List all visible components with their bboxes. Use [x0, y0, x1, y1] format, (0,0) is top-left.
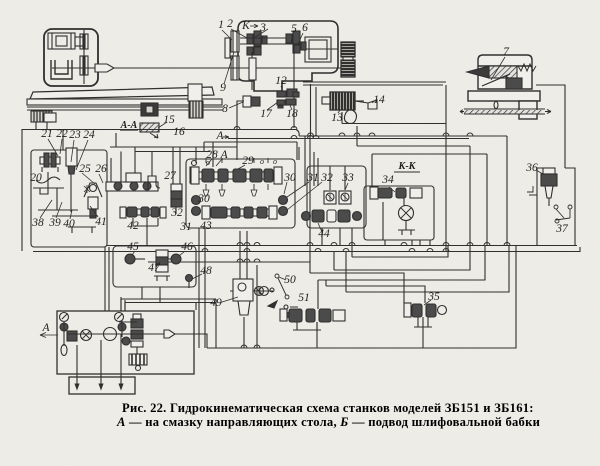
wire bus jog	[296, 130, 299, 137]
valve 27 stack	[171, 184, 182, 214]
pointer 6	[298, 33, 303, 44]
worm gear 17-18	[277, 99, 296, 108]
pointer 9	[224, 52, 234, 84]
tank arrows	[75, 334, 123, 389]
gear pair 2-3	[247, 31, 267, 55]
wire stair 3	[334, 246, 470, 271]
wheelhead lever	[482, 74, 519, 86]
wheelhead column	[519, 101, 537, 119]
motor 13	[322, 92, 364, 110]
wire main bus 1	[107, 245, 577, 247]
drain sign 36	[527, 186, 537, 195]
wire riser pair mid	[314, 152, 420, 245]
wire main return	[207, 246, 516, 349]
valve 35 spool	[404, 303, 447, 327]
arrow under block 16	[150, 133, 158, 138]
valve 44	[302, 210, 362, 222]
pilot circles 30 right	[279, 196, 288, 216]
pointer 47	[156, 262, 160, 267]
pointer 3 arrow	[254, 29, 268, 38]
drip tray 40	[38, 186, 98, 233]
accumulator 28	[190, 161, 198, 184]
shaft I	[240, 37, 300, 39]
power unit piping	[64, 321, 194, 354]
pointer 50	[279, 277, 286, 280]
screw body	[249, 58, 256, 80]
oil tank	[69, 377, 135, 394]
pump 1	[60, 323, 68, 331]
pointer 33	[345, 183, 348, 190]
pointer 23	[71, 140, 74, 162]
pointer 14	[372, 99, 377, 103]
table right column	[188, 84, 202, 101]
pointer 39	[56, 202, 62, 218]
pointer 49	[219, 297, 238, 303]
element 14	[368, 100, 377, 109]
power unit box	[57, 311, 194, 374]
pump below motor 13	[344, 110, 356, 124]
backpressure valve 36	[541, 168, 557, 206]
left panel inner box	[31, 150, 107, 247]
pilot valve 42	[120, 207, 166, 218]
float lever 20	[33, 172, 64, 194]
A net arrow	[223, 136, 229, 139]
wheelhead slide bar	[460, 102, 551, 115]
filter 2	[129, 354, 147, 371]
wire stair 6	[326, 286, 425, 303]
limit contact 50	[275, 274, 289, 299]
wire pump column	[121, 297, 125, 311]
wire stair 5	[318, 246, 485, 281]
pump 4	[118, 323, 126, 331]
wire stair 2	[352, 246, 448, 258]
wheelhead centre cone	[467, 66, 489, 78]
bracket 26	[84, 183, 102, 218]
pump 3	[104, 328, 117, 341]
link to 14	[355, 101, 368, 103]
A-A underline	[120, 129, 138, 131]
pointer 29	[238, 165, 245, 169]
lube valve 21-22	[40, 153, 60, 172]
wire return pair	[121, 287, 216, 348]
throttle row 29	[191, 158, 282, 184]
pointer 38	[40, 200, 52, 218]
filter 1	[67, 331, 77, 341]
pointer 22	[60, 139, 62, 154]
gearbox housing outline	[238, 21, 338, 91]
wheelhead spring	[518, 64, 536, 71]
workhead centre line	[52, 67, 95, 69]
pilot box	[126, 173, 141, 182]
vertical drive shaft	[293, 44, 295, 128]
gear pair 5-6	[286, 31, 306, 53]
pointer 15	[158, 122, 167, 128]
centre cone	[95, 64, 114, 72]
wire center drops	[199, 130, 430, 349]
pointer 45	[132, 251, 135, 255]
wheelhead solenoid	[506, 78, 522, 89]
pointer 12	[281, 86, 283, 92]
wire wheelhead riser	[536, 85, 565, 168]
distributor 49	[230, 279, 274, 315]
workhead spindle shaft	[80, 30, 88, 84]
wire stair 1	[148, 262, 310, 273]
reversing valve 43	[202, 206, 277, 219]
pawl 19	[293, 92, 299, 97]
A pump arrow	[40, 333, 58, 338]
pointer 13	[338, 110, 340, 113]
pointer 36	[536, 170, 543, 174]
solenoid 46	[166, 254, 181, 264]
table drive cylinder block	[141, 103, 158, 116]
workhead body outline	[44, 29, 98, 86]
wire stair 4	[310, 273, 404, 303]
pointer 32t	[287, 182, 322, 210]
pointer 30r	[284, 182, 287, 194]
pointer 8	[229, 102, 243, 108]
relief valve stack	[131, 314, 143, 347]
grinding wheel	[341, 42, 355, 77]
wheelhead quill	[489, 66, 517, 78]
valve 47	[154, 250, 170, 281]
lever 51	[268, 301, 298, 321]
valve 36 enclosure	[537, 168, 575, 245]
pointer 1	[222, 30, 232, 40]
pointer 2	[231, 29, 247, 38]
K-K section box	[364, 186, 434, 240]
gauge 2	[115, 313, 124, 322]
pointer 34	[389, 187, 395, 192]
control block box	[186, 159, 295, 228]
pilot line lower	[303, 84, 443, 136]
dither unit 8	[237, 96, 260, 130]
bevel gear 12	[277, 89, 297, 97]
wire bus extension	[299, 135, 507, 137]
pilot circles 30 left	[192, 196, 201, 216]
pointer 18	[290, 105, 292, 110]
stop valve 34	[370, 187, 422, 240]
pointer 28	[206, 159, 222, 166]
pilot line from gearbox	[303, 81, 446, 83]
pointer 48	[192, 274, 202, 279]
caption line 2	[117, 415, 587, 430]
wire stair 7	[346, 246, 509, 293]
pointer K arrow	[250, 24, 258, 28]
wheelhead base plate	[468, 91, 540, 101]
pointer 35	[424, 300, 431, 305]
wire feeder grid	[63, 130, 469, 184]
table second foot	[44, 113, 56, 122]
feed screw shaft	[251, 52, 253, 90]
wire valve42 drains	[133, 218, 158, 246]
pump 2	[81, 330, 92, 341]
pointer 7	[491, 57, 505, 80]
outlet cone	[164, 330, 175, 338]
table rail	[27, 99, 223, 110]
wire left panel drops	[105, 247, 109, 311]
pointer 24	[76, 140, 88, 170]
gauge 1	[60, 313, 69, 322]
manifold 25	[106, 182, 158, 191]
valve 48	[186, 275, 193, 289]
solenoid 45	[125, 254, 145, 264]
U bracket	[51, 60, 72, 79]
motor M1 inside workhead	[48, 33, 83, 49]
plunger 23	[66, 148, 77, 186]
motor M2 in gearbox	[298, 37, 338, 62]
wire right risers	[446, 85, 507, 252]
pointer 26	[99, 174, 103, 183]
caption line 1	[122, 401, 592, 416]
cone pulley stack	[225, 31, 239, 80]
pointer 5	[291, 34, 293, 42]
pointer 21	[48, 139, 58, 156]
shaft II	[240, 43, 300, 45]
pointer 46	[179, 251, 185, 256]
J pipe	[148, 176, 160, 190]
pointer 31t	[287, 182, 309, 197]
left panel outer wire	[22, 130, 296, 252]
pointer 41	[90, 206, 98, 217]
wire kk feed line	[372, 154, 487, 186]
pointer 25	[82, 173, 95, 184]
table left foot	[31, 111, 52, 122]
pointer 17	[267, 102, 278, 110]
valve 51 spool	[280, 309, 345, 330]
wire main bus 2	[33, 247, 580, 252]
interlock box 33-44	[307, 166, 366, 228]
wire lower long	[194, 317, 423, 348]
suction strainer	[61, 345, 67, 356]
pointer 44	[318, 223, 322, 232]
check valves under 29	[206, 184, 268, 190]
valve 33	[324, 191, 351, 204]
section A-A hatched block 16	[140, 123, 159, 132]
pump 5	[122, 337, 130, 345]
kinematic centre line	[113, 67, 341, 69]
pressure switch 37	[554, 205, 572, 223]
nozzle stars	[84, 185, 90, 193]
pointer 40	[70, 210, 72, 219]
wire pump line	[357, 126, 470, 146]
wire junction hops	[202, 127, 510, 349]
K-K title	[394, 171, 420, 173]
table swivel plate	[30, 87, 214, 99]
wire motor line	[342, 112, 446, 124]
wheelhead body 7	[478, 55, 532, 89]
lube box 45-48	[113, 246, 196, 287]
